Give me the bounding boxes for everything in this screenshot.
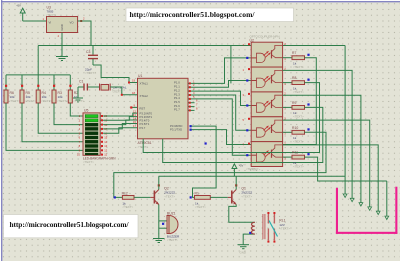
probe wire 5: [283, 145, 379, 211]
svg-text:10: 10: [77, 153, 80, 157]
svg-text:<TEXT>: <TEXT>: [41, 99, 52, 103]
wire R8 return: [143, 83, 319, 153]
svg-text:<TEXT>: <TEXT>: [167, 238, 178, 242]
wire R2 to bargraph row1: [70, 103, 83, 116]
ground under Q2: [153, 239, 165, 243]
svg-text:R10: R10: [292, 126, 298, 130]
power +5V arrow top-left: [20, 8, 25, 21]
wire Q2 emitter down to ground: [158, 205, 160, 239]
electrode 1: [343, 194, 347, 197]
opto channel 1: [243, 42, 287, 67]
wire R4 to bargraph row5: [38, 103, 83, 133]
svg-text:XTAL2: XTAL2: [140, 94, 149, 98]
svg-text:C3: C3: [86, 50, 90, 54]
svg-text:14: 14: [104, 140, 107, 144]
wire U1 P1.3 to opto ch4 input: [192, 95, 251, 130]
svg-text:13: 13: [104, 144, 107, 148]
svg-text:U1: U1: [138, 74, 142, 78]
wire Q1 collector up: [235, 176, 237, 189]
wire crystal to XTAL2: [110, 87, 137, 95]
svg-text:15: 15: [104, 136, 107, 140]
wire stubs bus to resistors: [6, 75, 70, 90]
svg-text:R1: R1: [195, 191, 199, 195]
buzzer BUZ1: [159, 211, 180, 242]
wire Q2 collector up: [158, 176, 160, 189]
svg-text:GND: GND: [240, 251, 246, 255]
svg-text:•5V: •5V: [239, 164, 244, 168]
wire R11 return: [305, 157, 387, 181]
electrode 3: [359, 203, 363, 206]
svg-text:12: 12: [104, 148, 107, 152]
wire bargraph row2 to U1 P3.3: [104, 117, 138, 121]
svg-text:17: 17: [133, 124, 136, 128]
svg-text:<TEXT>: <TEXT>: [195, 205, 206, 209]
svg-text:U5: U5: [84, 109, 88, 113]
transistor Q1: [228, 184, 253, 204]
wire rail drop to P1.0 row: [230, 46, 232, 84]
svg-text:R8: R8: [292, 76, 296, 80]
probe wire 1: [344, 46, 346, 195]
opto channel 4: [243, 117, 287, 142]
resistor R5: [20, 90, 36, 103]
svg-text:<TEXT>: <TEXT>: [293, 65, 304, 69]
wire R6 to bargraph row9: [6, 103, 83, 150]
wire R3 to bargraph row3: [54, 103, 83, 125]
wire relay coil bottom to ground: [243, 234, 255, 245]
probe wire 3: [283, 95, 361, 202]
svg-text:(TEXT): (TEXT): [113, 90, 122, 94]
resistor R9: [283, 101, 310, 119]
svg-text:VI: VI: [49, 21, 52, 25]
crystal X1: [100, 84, 127, 94]
U1 left pin numbers: [132, 79, 136, 129]
wire power to regulator input: [23, 20, 47, 22]
pin markers above resistors: [5, 85, 72, 87]
svg-text:<TEXT>: <TEXT>: [122, 205, 133, 209]
svg-text:15: 15: [133, 120, 136, 124]
resistor R6: [4, 90, 20, 103]
top url banner: [126, 8, 294, 22]
svg-text:<TEXT>: <TEXT>: [85, 71, 96, 75]
wire U1 P3.1 to R7 return: [192, 130, 317, 145]
ground under regulator: [56, 33, 68, 61]
ground under C1: [73, 87, 83, 102]
wire U1 P1.0 to opto ch1 input: [192, 58, 251, 84]
wire R1 to Q1 base: [210, 196, 228, 198]
svg-text:<TEXT>: <TEXT>: [57, 99, 68, 103]
svg-text:<TEXT>: <TEXT>: [164, 194, 175, 198]
pin 2 marker regulator output: [80, 17, 85, 23]
svg-text:<TEXT>: <TEXT>: [83, 160, 94, 164]
resistor R11: [283, 151, 310, 169]
electrode 4: [368, 207, 372, 210]
optocoupler U2 label: [250, 35, 280, 172]
wire R12 to Q2 base: [134, 196, 150, 198]
wire bargraph row5 to U1 P3.6: [104, 128, 138, 134]
svg-text:BUZ1: BUZ1: [167, 211, 176, 215]
U1 right pin markers: [189, 82, 191, 111]
svg-text:<TEXT>: <TEXT>: [279, 226, 290, 230]
wire U1 P1.2 to opto ch3 input: [192, 91, 251, 105]
resistor R7: [283, 51, 310, 69]
resistor R3: [52, 90, 68, 103]
probe wire 6: [386, 181, 388, 216]
resistor R4: [36, 90, 52, 103]
resistor R8: [283, 76, 310, 94]
svg-text:<TEXT>: <TEXT>: [246, 167, 257, 171]
wire Q1 emitter to relay coil top: [229, 205, 255, 223]
wire collector rail to probe 1: [159, 175, 345, 177]
wire resistor top bus: [6, 74, 70, 76]
bottom url banner: [4, 215, 139, 238]
wire C3 to XTAL1: [93, 65, 138, 83]
U1 RST stub: [130, 106, 137, 108]
svg-text:<TEXT>: <TEXT>: [293, 140, 304, 144]
electrode 2: [350, 198, 354, 201]
ground under relay: [238, 245, 250, 249]
svg-text:<TEXT>: <TEXT>: [25, 99, 36, 103]
svg-text:14: 14: [133, 116, 136, 120]
svg-text:http://microcontroller51.blogs: http://microcontroller51.blogspot.com/: [130, 10, 256, 19]
opto channel 5: [243, 141, 287, 166]
svg-text:12: 12: [133, 109, 136, 113]
electrode 6: [385, 216, 389, 219]
resistor R2: [68, 90, 84, 103]
LED bargraph U5: [83, 109, 116, 165]
capacitor C3: [85, 46, 98, 76]
tank (pink): [336, 187, 398, 234]
opto channel 2: [243, 67, 287, 92]
wire R5 to bargraph row7: [22, 103, 83, 142]
wire rail down to resistor bus: [37, 46, 39, 75]
svg-text:<TEXT>: <TEXT>: [293, 90, 304, 94]
voltage regulator U3 7805: [43, 6, 78, 33]
wire U1 P1.4 to opto ch5 input: [192, 99, 251, 155]
svg-text:http://microcontroller51.blogs: http://microcontroller51.blogspot.com/: [10, 220, 130, 229]
probe wire 4: [283, 120, 370, 207]
svg-text:13: 13: [133, 113, 136, 117]
svg-text:P3.1/TXD: P3.1/TXD: [170, 128, 182, 132]
U1 P3.0 P3.1 blue markers: [190, 125, 192, 131]
svg-text:18: 18: [132, 91, 135, 95]
svg-text:(TEXT): (TEXT): [47, 13, 56, 17]
svg-text:<TEXT>: <TEXT>: [241, 194, 252, 198]
wire R10 return to R12: [114, 132, 326, 197]
resistor R10: [283, 126, 310, 144]
power +5V arrow lower: [232, 164, 237, 176]
svg-text:GND: GND: [60, 24, 64, 30]
svg-text:R7: R7: [292, 51, 296, 55]
svg-text:11: 11: [104, 153, 107, 157]
svg-text:R9: R9: [292, 101, 296, 105]
opto channel 3: [243, 92, 287, 117]
wire U1 P3.0 to R1: [192, 126, 217, 197]
relay RL1: [251, 212, 290, 243]
svg-text:P3.7: P3.7: [140, 126, 146, 130]
wire bargraph row3 to U1 P3.4: [104, 120, 138, 125]
resistor R1: [190, 191, 211, 209]
resistor R12: [114, 191, 134, 209]
electrode 5: [376, 211, 380, 214]
svg-text:<TEXT>: <TEXT>: [9, 99, 20, 103]
capacitor C1: [78, 80, 99, 91]
wire regulator output to +5V rail: [78, 21, 91, 46]
U1 XTAL pin markers: [121, 82, 130, 96]
microcontroller U1 AT89C51: [138, 74, 189, 149]
svg-text:<TEXT>: <TEXT>: [293, 115, 304, 119]
probe wire 2: [283, 70, 353, 198]
transistor Q2: [150, 184, 175, 204]
wire R7 return: [305, 58, 317, 145]
svg-text:OPTOCOUPLER-NPN: OPTOCOUPLER-NPN: [250, 35, 280, 39]
svg-text:C1: C1: [79, 80, 83, 84]
svg-text:•5V: •5V: [17, 4, 22, 8]
wire bargraph row4 to U1 P3.5: [104, 124, 138, 129]
svg-text:XTAL1: XTAL1: [140, 82, 149, 86]
bargraph right pins: [100, 114, 108, 157]
wire bargraph row1 to U1 P3.2: [104, 113, 138, 116]
bargraph left pin numbers: [77, 114, 81, 157]
svg-text:P1.7: P1.7: [174, 108, 180, 112]
wire +5V rail: [38, 45, 345, 47]
U1 right pin stubs P1.0-P1.7: [188, 83, 195, 110]
svg-text:19: 19: [132, 79, 135, 83]
svg-text:<TEXT>: <TEXT>: [293, 164, 304, 168]
svg-text:R11: R11: [292, 151, 298, 155]
svg-text:R12: R12: [122, 191, 128, 195]
svg-text:RST: RST: [140, 106, 146, 110]
wire R9 return: [163, 107, 323, 162]
wire U1 P1.1 to opto ch2 input: [192, 81, 251, 88]
